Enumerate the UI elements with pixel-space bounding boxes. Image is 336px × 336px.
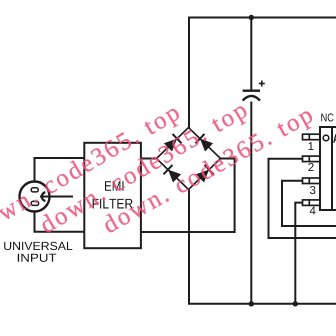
pin 4 of U1 [303,200,321,206]
pin 2 of U1 [303,156,321,162]
label: pin numbers [308,142,315,214]
wire: plug ground stub [40,196,73,198]
label: UNIVERSAL INPUT [4,242,72,262]
wire: bridge edge left-top [157,128,189,159]
wire: capacitor C1 top lead from rail [250,18,252,91]
wire: bridge edge bottom-right [189,159,221,190]
wire: bridge edge bottom-left [157,159,189,190]
wire: bridge edge right-top [189,128,221,159]
EMI filter module [84,143,141,248]
node: bottom rail / U1 pin4 junction [293,301,298,306]
node: bottom rail / C1 junction [249,301,254,306]
capacitor C1 electrolytic [243,81,265,101]
wire: plug neutral to EMI filter bottom [35,212,85,232]
wire: top positive rail [188,17,336,19]
wire: capacitor C1 bottom lead to bottom rail [250,102,252,304]
label: NC [321,113,333,121]
IC U1 (partially visible at right edge) [320,127,336,210]
diode D2 top-right [196,134,214,152]
wire: U1 pin3 loop out right [282,181,336,226]
wire: EMI filter bottom to bridge AC right [141,159,235,233]
label: partial letter inside U1 at image edge [334,134,336,143]
wire: bridge + output up to top rail [188,19,190,129]
wire: U1 pin2 loop out right [269,159,336,238]
diode bridge [157,128,221,190]
diode D4 bottom-right [196,165,214,183]
wire: bridge - output down to bottom rail [188,190,190,304]
diode D1 top-left [164,134,182,152]
watermark [0,100,316,241]
wire: U1 pin4 down to bottom rail [295,203,302,304]
node: top rail / C1 junction [249,15,254,20]
connector P1: universal AC input plug [20,182,50,212]
wire: bottom negative rail [188,303,336,305]
pin 1 of U1 (NC) [303,134,321,140]
pin 3 of U1 [303,178,321,184]
diode D3 bottom-left [164,165,182,183]
wire: EMI filter to bridge AC left [141,158,157,160]
wire: plug line to EMI filter top [35,158,85,182]
